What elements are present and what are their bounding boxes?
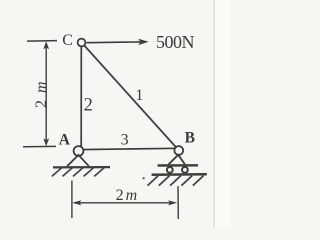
node C: [78, 39, 86, 47]
svg-text:2m: 2m: [33, 74, 50, 108]
svg-text:2: 2: [84, 95, 93, 115]
svg-text:A: A: [59, 132, 71, 149]
member 2 (vertical C-A): [80, 44, 82, 148]
node B: [174, 146, 183, 155]
svg-text:1: 1: [135, 87, 143, 104]
top tick at C level: [27, 40, 57, 43]
support B: roller left: [167, 167, 173, 173]
svg-text:B: B: [185, 129, 195, 146]
bottom dimension: left extension line: [71, 181, 73, 219]
left dimension line 2m: [43, 41, 49, 146]
bottom tick at A level: [23, 145, 56, 147]
svg-text:3: 3: [121, 131, 129, 148]
bottom dimension: right extension line: [177, 186, 179, 219]
support B: ground line: [152, 173, 207, 176]
support B: hatching: [148, 176, 204, 186]
page edge shading right: [215, 0, 230, 227]
support B: top bar: [158, 164, 198, 167]
speck dot: [143, 177, 145, 179]
node A: [74, 146, 84, 156]
svg-text:500N: 500N: [156, 32, 195, 52]
support B: roller right: [182, 167, 188, 173]
support A: ground line: [53, 166, 110, 168]
support B: roller triangle: [169, 155, 185, 165]
svg-text:2m: 2m: [116, 187, 140, 204]
member 3 (horizontal A-B): [80, 148, 177, 149]
paper background: [0, 0, 230, 227]
bottom dimension line 2m: [72, 200, 177, 205]
svg-text:C: C: [62, 32, 73, 49]
member 1 (diagonal C-B): [83, 44, 179, 151]
force arrow 500N: [86, 39, 148, 45]
page edge line: [213, 0, 215, 227]
support A: pin triangle: [67, 155, 89, 166]
support A: hatching: [52, 168, 104, 177]
